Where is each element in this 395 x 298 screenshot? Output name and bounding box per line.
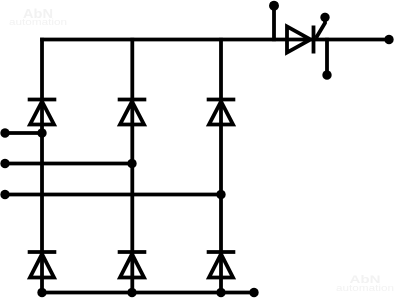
diode V3 [118, 100, 147, 125]
node DC- terminal [249, 288, 258, 297]
thyristor V7 [287, 18, 325, 54]
diode V4 [118, 252, 147, 278]
node junction DC- leg2 [127, 288, 136, 297]
node thyristor anode terminal [269, 1, 279, 11]
diode V1 [28, 100, 57, 125]
node L1 terminal [0, 128, 9, 137]
wire AC input L3 [5, 193, 221, 197]
wire AC input L1 [5, 131, 42, 135]
wire phase leg 1 vertical [40, 40, 44, 293]
wire thyristor cathode stub [325, 40, 329, 75]
diode V2 [28, 252, 57, 278]
wire thyristor anode stub [272, 7, 276, 40]
wire AC input L2 [5, 162, 132, 166]
svg-text:automation: automation [336, 283, 394, 293]
wire phase leg 2 vertical [130, 40, 134, 293]
node junction L2 leg2 [127, 159, 136, 168]
node junction DC- leg1 [37, 288, 46, 297]
diode V6 [207, 252, 236, 278]
diode V5 [207, 100, 236, 125]
node DC+ terminal [384, 35, 393, 44]
node thyristor cathode terminal [322, 70, 331, 79]
node L2 terminal [0, 159, 9, 168]
node junction L3 leg3 [216, 190, 225, 199]
node L3 terminal [0, 190, 9, 199]
wire top DC+ bus [42, 38, 389, 42]
node junction DC- leg3 [216, 288, 225, 297]
node thyristor gate terminal [320, 13, 329, 22]
wire bottom DC- bus [42, 291, 254, 295]
node junction L1 leg1 [37, 128, 46, 137]
svg-text:automation: automation [9, 17, 67, 27]
wire phase leg 3 vertical [219, 40, 223, 293]
